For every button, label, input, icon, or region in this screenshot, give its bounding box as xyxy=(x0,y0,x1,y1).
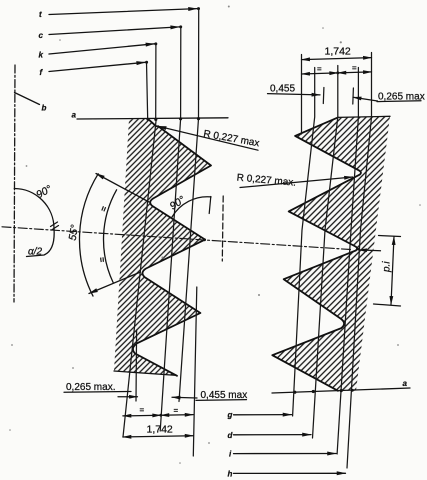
tick on arc end xyxy=(51,222,58,227)
svg-text:p.i: p.i xyxy=(382,261,393,273)
short dashed vertical near crest2 xyxy=(221,196,224,261)
right top 1,742 dimension xyxy=(302,58,372,60)
right top equality dimension xyxy=(302,73,338,74)
90 degree arc at left crest xyxy=(172,197,211,217)
90 degree arc at axis xyxy=(14,189,54,229)
svg-text:b: b xyxy=(42,104,47,113)
left vertical reference/extension lines xyxy=(147,62,148,120)
tick at 0,455 arrow target xyxy=(322,88,325,104)
right thread profile hatched section xyxy=(265,108,395,398)
crest line left profile xyxy=(179,119,199,402)
svg-text:1,742: 1,742 xyxy=(325,45,351,57)
left thread profile hatched section xyxy=(100,110,220,385)
short line 0,265 target xyxy=(135,330,138,401)
svg-text:0,455: 0,455 xyxy=(270,84,295,95)
label b and leader xyxy=(15,93,40,105)
svg-text:90°: 90° xyxy=(34,183,54,201)
left band bottom edge xyxy=(114,371,177,375)
svg-text:1,742: 1,742 xyxy=(147,423,173,435)
top line a (left profile) xyxy=(77,118,228,119)
svg-text:t: t xyxy=(39,10,42,19)
svg-text:f: f xyxy=(40,68,44,77)
bottom left equality dimension line xyxy=(123,414,161,417)
55 degree flank extension leg upper xyxy=(96,174,149,203)
center line arrow segment at right thread root xyxy=(359,249,381,252)
55 degree outer arc xyxy=(79,174,98,296)
root line left profile xyxy=(123,121,156,437)
svg-text:=: = xyxy=(317,64,322,73)
svg-text:=: = xyxy=(98,205,109,213)
svg-text:c: c xyxy=(39,31,44,40)
right figure long lines xyxy=(301,55,303,135)
pitch line left profile xyxy=(160,119,180,431)
55 degree inner arc xyxy=(104,190,117,283)
svg-text:=: = xyxy=(140,406,145,415)
55 degree flank extension leg lower xyxy=(89,272,141,294)
p.i dimension right xyxy=(379,236,401,237)
svg-text:a: a xyxy=(403,379,408,388)
right band top edge xyxy=(338,116,390,117)
horizontal center line dash-dot xyxy=(2,227,352,250)
svg-text:a: a xyxy=(72,111,77,120)
vertical axis dash-dot line xyxy=(14,65,15,302)
svg-text:α/2: α/2 xyxy=(28,247,42,258)
svg-text:=: = xyxy=(174,406,179,415)
svg-text:90°: 90° xyxy=(168,194,188,213)
svg-text:d: d xyxy=(228,431,234,440)
svg-text:R 0,227 max.: R 0,227 max. xyxy=(236,173,296,189)
right extension line left profile xyxy=(193,287,197,456)
svg-text:g: g xyxy=(227,411,233,420)
bottom left 1,742 dimension xyxy=(123,436,193,437)
svg-text:k: k xyxy=(39,51,44,60)
tick at 0,265 arrow target xyxy=(352,88,355,104)
svg-text:=: = xyxy=(352,64,357,73)
svg-text:i: i xyxy=(229,450,232,459)
svg-text:h: h xyxy=(228,470,233,479)
bottom line a (right profile) xyxy=(272,388,410,393)
